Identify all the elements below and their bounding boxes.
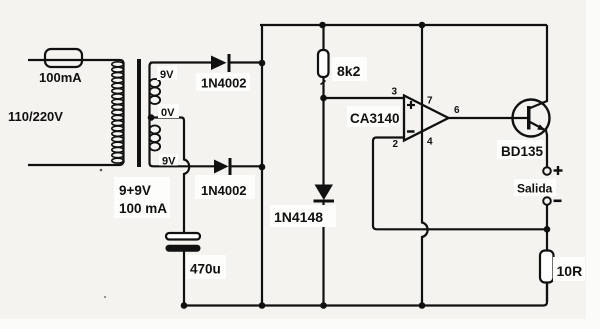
op-amp plus input sign <box>407 101 415 109</box>
svg-text:7: 7 <box>427 96 433 107</box>
transformer T1 primary winding <box>122 62 124 163</box>
diode D2 1N4002 <box>214 158 232 175</box>
fuse F1 <box>45 49 82 67</box>
svg-text:0V: 0V <box>161 107 175 119</box>
svg-text:9+9V: 9+9V <box>119 183 151 198</box>
wire - terminal to node and 10R <box>546 205 548 251</box>
wire top bus <box>260 24 547 26</box>
svg-text:100mA: 100mA <box>39 70 82 85</box>
svg-text:BD135: BD135 <box>501 144 544 159</box>
wire 8k2 branch (top bus to resistor) <box>322 25 324 51</box>
diode D1 1N4002 <box>150 54 231 72</box>
node junction dots <box>148 22 551 309</box>
transformer T1 core <box>137 59 141 167</box>
svg-text:4: 4 <box>427 137 433 148</box>
white label boxes <box>114 57 585 281</box>
svg-text:3: 3 <box>392 87 398 98</box>
wire emitter to + terminal <box>529 122 547 168</box>
terminal - output <box>543 197 551 205</box>
wire 1N4148 to bottom bus <box>322 202 324 306</box>
svg-text:CA3140: CA3140 <box>350 111 400 126</box>
wire 0V center tap to capacitor (hops over 9V wire) <box>151 118 189 234</box>
wire op-amp power line pin7/pin4 (hops over feedback wire) <box>422 25 428 306</box>
svg-text:9V: 9V <box>160 69 174 81</box>
op-amp minus input sign <box>407 130 415 133</box>
wire left bus <box>261 25 263 306</box>
wire D2 cathode to left bus <box>231 165 262 167</box>
transistor Q1 BD135 circle <box>513 100 550 137</box>
wire node to 1N4148 <box>322 98 324 185</box>
svg-text:1N4002: 1N4002 <box>201 183 247 198</box>
svg-text:6: 6 <box>454 105 460 116</box>
svg-text:Salida: Salida <box>517 182 553 196</box>
capacitor C1 470u top plate <box>166 233 200 240</box>
transistor emitter arrow <box>537 124 545 130</box>
plus sign at output <box>554 166 563 175</box>
wire 10R to bottom bus <box>546 283 548 303</box>
svg-text:1N4002: 1N4002 <box>201 76 247 91</box>
svg-text:470u: 470u <box>190 262 221 277</box>
svg-text:1N4148: 1N4148 <box>274 209 323 225</box>
svg-text:8k2: 8k2 <box>337 63 361 79</box>
resistor R2 10R <box>540 251 554 283</box>
speck artifact <box>100 169 103 172</box>
wire pin3 input <box>324 97 405 99</box>
minus sign at output <box>554 200 562 203</box>
svg-text:9V: 9V <box>162 156 176 168</box>
wire D1 cathode to left bus <box>231 61 263 63</box>
transistor base bar <box>527 106 531 130</box>
capacitor C1 470u bottom plate <box>166 245 201 252</box>
wire 8k2 bottom lead to node <box>322 77 324 98</box>
wire feedback from pin2 to output node <box>373 138 547 230</box>
wire AC input top <box>28 60 124 64</box>
wire AC input bottom <box>28 160 124 165</box>
svg-text:110/220V: 110/220V <box>8 109 63 124</box>
terminal + output <box>543 167 551 175</box>
svg-text:100 mA: 100 mA <box>119 201 167 216</box>
svg-text:2: 2 <box>393 139 399 150</box>
speck artifact 2 <box>104 296 106 298</box>
tick on 8k2 lead <box>321 81 326 85</box>
resistor R1 8k2 <box>318 50 329 77</box>
diode D3 1N4148 <box>314 185 335 203</box>
wire collector to top bus <box>529 25 547 109</box>
wire bottom bus <box>184 252 547 306</box>
transformer T1 secondary winding <box>150 63 215 167</box>
svg-text:10R: 10R <box>557 263 583 279</box>
wire op-amp output to transistor base <box>449 117 528 119</box>
op-amp U1 CA3140 triangle <box>404 96 449 141</box>
